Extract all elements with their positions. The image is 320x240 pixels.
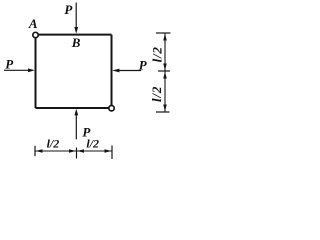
svg-text:l/2: l/2 xyxy=(86,137,99,151)
bottom dim arrowhead pointing right at right tick xyxy=(105,149,112,153)
force P left: arrow right onto left edge xyxy=(4,69,29,71)
frame left edge xyxy=(35,38,37,108)
force P right: arrow left onto right edge xyxy=(119,70,142,72)
bottom dimension tick right xyxy=(111,146,113,160)
bottom dim arrowhead pointing left at middle tick xyxy=(77,149,84,153)
frame bottom edge xyxy=(36,107,109,109)
hinge circle A (top-left) xyxy=(33,32,38,37)
bottom dimension line xyxy=(35,150,112,152)
frame right edge xyxy=(111,35,113,106)
svg-text:P: P xyxy=(64,2,73,17)
right dim arrowhead up at top tick xyxy=(163,34,167,41)
frame top edge xyxy=(38,34,111,36)
right dimension line xyxy=(164,33,166,112)
bottom dimension tick middle xyxy=(76,148,78,159)
svg-text:A: A xyxy=(28,16,38,31)
svg-text:l/2: l/2 xyxy=(47,136,60,150)
right dim arrowhead down at middle tick xyxy=(163,64,167,71)
right dim arrowhead up at middle tick xyxy=(163,72,167,79)
svg-text:l/2: l/2 xyxy=(149,46,164,62)
right dimension tick top xyxy=(156,32,171,34)
svg-text:l/2: l/2 xyxy=(149,86,164,102)
right dim arrowhead down at bottom tick xyxy=(163,105,167,112)
right dimension tick middle xyxy=(158,70,170,72)
right dimension tick bottom xyxy=(156,111,170,113)
svg-text:B: B xyxy=(71,35,81,50)
svg-text:P: P xyxy=(5,57,14,72)
bottom dim arrowhead pointing left at left tick xyxy=(36,149,43,153)
force P bottom: arrow up onto bottom edge xyxy=(75,115,77,140)
hinge circle (bottom-right) xyxy=(109,106,114,111)
svg-text:P: P xyxy=(139,58,148,73)
force P top: arrow down onto top edge at B xyxy=(75,3,77,29)
bottom dim arrowhead pointing right at middle tick xyxy=(69,149,76,153)
bottom dimension tick left xyxy=(34,146,36,156)
